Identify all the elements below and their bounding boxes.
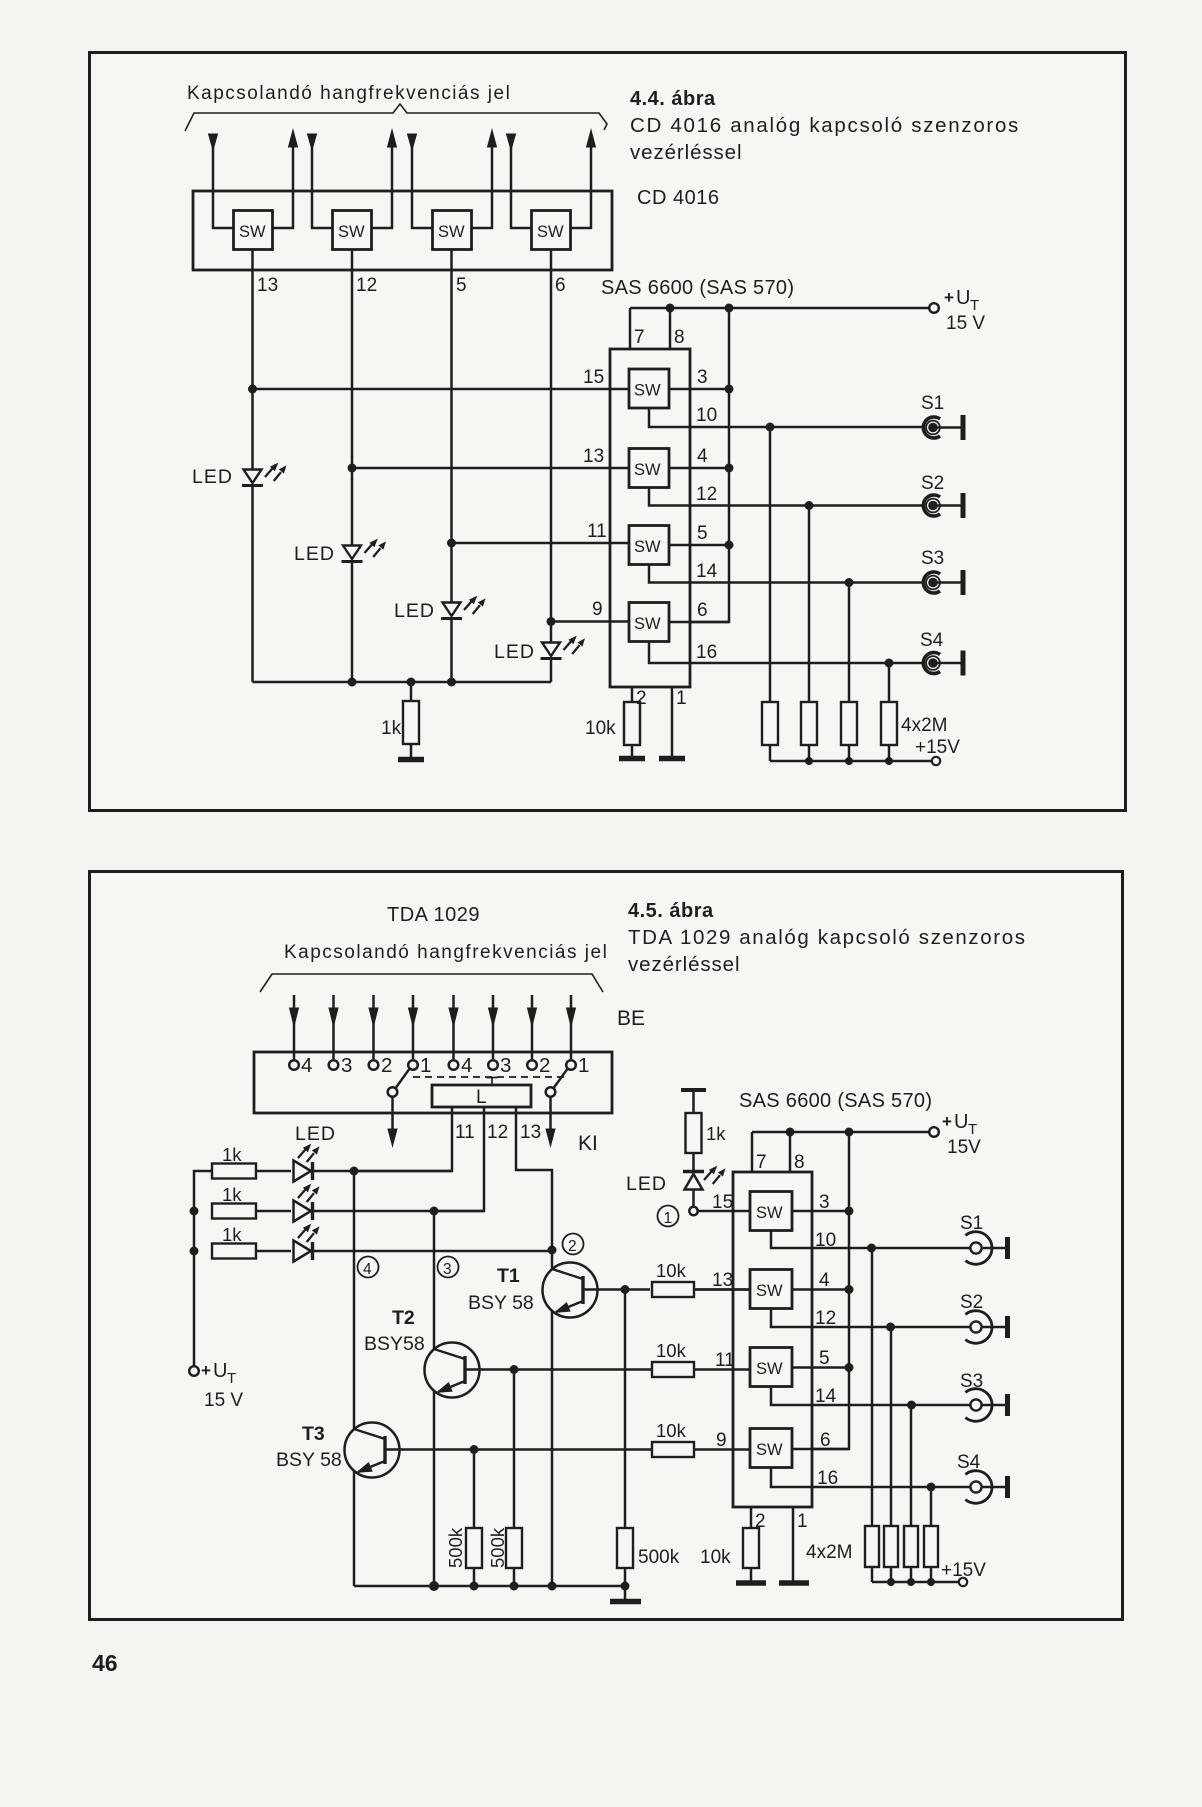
switch SW c — [433, 211, 472, 250]
resistor 500k b — [506, 1370, 522, 1587]
switch SW4 sas — [629, 603, 669, 642]
terminal +15V — [932, 757, 940, 765]
svg-text:S2: S2 — [921, 473, 944, 494]
svg-text:2: 2 — [755, 1511, 766, 1532]
switch SW1 sas — [629, 369, 669, 408]
svg-text:16: 16 — [817, 1468, 838, 1489]
svg-text:BSY 58: BSY 58 — [468, 1292, 534, 1314]
node dot pin3 fig2 — [845, 1207, 854, 1216]
LED D1 — [242, 463, 287, 682]
IC SAS6600 fig2 outline — [733, 1172, 812, 1507]
resistor 2M a — [762, 427, 778, 761]
input arrow dn1 — [209, 134, 234, 228]
svg-text:15 V: 15 V — [204, 1390, 243, 1411]
svg-text:U: U — [956, 287, 970, 309]
node dot rail pin8 — [666, 304, 675, 313]
svg-text:4x2M: 4x2M — [901, 715, 947, 736]
node label circled4 — [358, 1257, 379, 1279]
wire row pin9 — [551, 620, 629, 623]
resistor 10k c — [652, 1442, 750, 1457]
svg-text:5: 5 — [819, 1348, 830, 1369]
resistor 500k c — [617, 1290, 633, 1587]
pin 2 lead + resistor 10k — [624, 687, 640, 757]
pin 1 lead — [671, 687, 674, 757]
wire control 1 vertical — [251, 250, 254, 470]
node dot pin10 fig2 — [867, 1244, 876, 1253]
resistor 2M a fig2 — [865, 1248, 879, 1582]
sensor S3 fig2 — [965, 1389, 1007, 1422]
svg-text:14: 14 — [815, 1386, 837, 1407]
sensor S4 — [923, 651, 963, 676]
resistor 1k — [403, 682, 419, 758]
svg-text:4: 4 — [461, 1054, 472, 1077]
svg-text:9: 9 — [716, 1430, 727, 1451]
latch L box — [432, 1077, 531, 1108]
switch SW4 fig2 — [750, 1429, 792, 1468]
svg-text:SAS 6600 (SAS 570): SAS 6600 (SAS 570) — [601, 277, 794, 299]
svg-text:S1: S1 — [960, 1213, 983, 1234]
node dot pin14 fig2 — [907, 1401, 916, 1410]
node label circled2 — [563, 1234, 584, 1256]
svg-text:12: 12 — [696, 484, 717, 505]
output arrow up3 — [472, 130, 497, 228]
svg-text:SW: SW — [634, 615, 661, 633]
ground at rail — [610, 1586, 641, 1602]
node dot pin12 fig2 — [886, 1323, 895, 1332]
wire control 4 vertical — [550, 250, 553, 643]
svg-text:10k: 10k — [700, 1547, 731, 1568]
svg-text:+: + — [201, 1361, 211, 1380]
svg-text:12: 12 — [356, 275, 377, 296]
brace over inputs — [185, 104, 607, 131]
svg-text:11: 11 — [587, 521, 607, 542]
svg-text:S1: S1 — [921, 393, 944, 414]
svg-text:15 V: 15 V — [946, 313, 985, 334]
node dot T3 base — [470, 1445, 479, 1454]
wire control 2 vertical — [351, 250, 354, 546]
node dot led3 out — [548, 1246, 557, 1255]
svg-text:4.5. ábra: 4.5. ábra — [628, 900, 714, 922]
input arrow 7 — [528, 995, 537, 1059]
svg-text:+: + — [942, 1112, 952, 1131]
label +UT fig2 — [942, 1111, 977, 1138]
input arrow 2 — [329, 995, 338, 1059]
svg-text:4: 4 — [301, 1054, 312, 1077]
LED E3 — [294, 1224, 553, 1262]
switch SW3 sas — [629, 526, 669, 565]
pin2 lead + resistor 10k d — [743, 1507, 759, 1581]
switch SW a — [234, 211, 273, 250]
svg-text:1k: 1k — [381, 718, 402, 739]
ground under 10k — [619, 756, 645, 762]
pin1 lead fig2 — [792, 1507, 795, 1581]
wire L pin11 — [354, 1107, 452, 1171]
svg-text:TDA 1029 analóg kapcsoló szenz: TDA 1029 analóg kapcsoló szenzoros — [628, 926, 1027, 949]
svg-text:SW: SW — [756, 1204, 783, 1222]
pin 7 lead — [629, 308, 632, 349]
svg-text:LED: LED — [295, 1123, 336, 1145]
terminal circle 3a — [329, 1060, 339, 1070]
resistor 1k top — [681, 1090, 706, 1171]
wire pin14 — [649, 565, 923, 583]
svg-text:SW: SW — [634, 538, 661, 556]
wire pin3 fig2 — [792, 1210, 849, 1213]
terminal circle 4a — [289, 1060, 299, 1070]
svg-text:3: 3 — [443, 1261, 452, 1278]
svg-text:LED: LED — [294, 543, 335, 565]
svg-text:14: 14 — [696, 561, 718, 582]
svg-text:1: 1 — [420, 1054, 431, 1077]
terminal +15V fig2 — [959, 1578, 967, 1586]
switch SW d — [532, 211, 571, 250]
terminal circle 1b — [566, 1060, 576, 1070]
LED E1 — [294, 1144, 453, 1182]
svg-text:7: 7 — [634, 327, 645, 348]
svg-text:SW: SW — [756, 1282, 783, 1300]
terminal circle 2a — [369, 1060, 379, 1070]
pin8 lead fig2 — [789, 1132, 792, 1172]
terminal circle 4b — [449, 1060, 459, 1070]
svg-text:12: 12 — [815, 1308, 836, 1329]
svg-text:vezérléssel: vezérléssel — [630, 141, 742, 164]
ground pin2 — [736, 1580, 766, 1586]
wire row pin11 — [452, 542, 630, 545]
svg-text:15: 15 — [712, 1192, 733, 1213]
label +UT — [944, 287, 979, 314]
svg-text:1: 1 — [578, 1054, 589, 1077]
svg-text:Kapcsolandó hangfrekvenciás je: Kapcsolandó hangfrekvenciás jel — [284, 942, 608, 963]
svg-text:8: 8 — [674, 327, 685, 348]
wire +15V rail — [770, 760, 931, 763]
wire +UT rail — [630, 307, 929, 310]
node dot 15v c fig2 — [907, 1578, 915, 1586]
node dot pin5 — [725, 541, 734, 550]
svg-text:1: 1 — [797, 1511, 808, 1532]
svg-text:BE: BE — [617, 1007, 645, 1030]
svg-text:+15V: +15V — [941, 1560, 986, 1581]
dashed link line — [413, 1076, 569, 1078]
svg-text:BSY58: BSY58 — [364, 1333, 425, 1355]
LED D3 — [441, 596, 486, 682]
node dot rail T2 — [429, 1581, 439, 1591]
node dot pin14 r2m — [845, 578, 854, 587]
resistor 1k row3 — [212, 1244, 291, 1259]
svg-text:500k: 500k — [445, 1527, 466, 1568]
node dot pin16 r2m — [885, 659, 894, 668]
wire pin14 fig2 — [771, 1387, 971, 1406]
svg-text:5: 5 — [456, 275, 467, 296]
svg-text:BSY 58: BSY 58 — [276, 1449, 342, 1471]
svg-text:8: 8 — [794, 1152, 805, 1173]
wire emitter rail — [354, 1585, 625, 1588]
svg-text:SAS 6600 (SAS 570): SAS 6600 (SAS 570) — [739, 1090, 932, 1112]
svg-text:3: 3 — [500, 1054, 511, 1077]
node dot rail8 fig2 — [786, 1128, 795, 1137]
svg-text:1k: 1k — [222, 1224, 242, 1245]
node dot pin4 — [725, 464, 734, 473]
caption 4.4 abra — [630, 88, 1020, 164]
node dot rail2 — [348, 678, 357, 687]
ground pin1 fig2 — [779, 1580, 809, 1586]
svg-text:2: 2 — [568, 1238, 577, 1255]
svg-text:SW: SW — [634, 461, 661, 479]
wire bottom cathode rail — [253, 681, 552, 684]
node dot 15v d — [885, 757, 893, 765]
resistor 10k b — [652, 1362, 750, 1377]
node dot pin4 fig2 — [845, 1285, 854, 1294]
node dot pin12 r2m — [805, 501, 814, 510]
svg-text:9: 9 — [592, 599, 603, 620]
wire pin6 fig2 — [792, 1448, 849, 1451]
terminal circle pin15 — [689, 1207, 697, 1215]
ground under pin1 — [659, 756, 685, 762]
resistor 10k a — [652, 1282, 750, 1297]
wire pin10 fig2 — [771, 1231, 971, 1249]
input arrow 3 — [369, 995, 378, 1059]
svg-text:S2: S2 — [960, 1292, 983, 1313]
switch SW2 fig2 — [750, 1270, 792, 1309]
IC TDA1029 box — [254, 1052, 612, 1113]
svg-text:U: U — [213, 1360, 227, 1382]
node dot 15v b fig2 — [887, 1578, 895, 1586]
svg-text:1k: 1k — [222, 1184, 242, 1205]
wire +UT rail fig2 — [752, 1131, 929, 1134]
svg-text:+: + — [944, 288, 954, 307]
svg-text:SW: SW — [756, 1441, 783, 1459]
terminal +UT fig2 — [929, 1127, 939, 1137]
node dot rail bus — [725, 304, 734, 313]
resistor 500k a — [466, 1450, 482, 1587]
figure 4.4 frame — [90, 53, 1126, 811]
node dot 15v c — [845, 757, 853, 765]
label +UT left — [201, 1360, 236, 1387]
svg-text:S3: S3 — [960, 1371, 983, 1392]
svg-text:Kapcsolandó hangfrekvenciás je: Kapcsolandó hangfrekvenciás jel — [187, 83, 511, 104]
wire pin13 fig2 — [694, 1288, 750, 1291]
node dot r15 — [248, 385, 257, 394]
output arrow up1 — [273, 130, 298, 228]
sensor S2 fig2 — [965, 1311, 1007, 1344]
svg-text:SW: SW — [239, 223, 266, 241]
input arrow 4 — [409, 995, 418, 1059]
wire pin4 fig2 — [792, 1288, 849, 1291]
node dot r9 — [547, 617, 556, 626]
node dot pin3 — [725, 385, 734, 394]
input arrow dn2 — [308, 134, 333, 228]
svg-text:4: 4 — [363, 1261, 372, 1278]
IC CD4016 box — [193, 191, 612, 270]
svg-text:500k: 500k — [638, 1547, 680, 1568]
transistor T1 — [543, 1250, 651, 1586]
svg-text:13: 13 — [712, 1270, 733, 1291]
sensor S3 — [923, 570, 963, 595]
ground under 1k — [398, 757, 424, 763]
switch SW b — [333, 211, 372, 250]
node dot rail3 — [447, 678, 456, 687]
svg-text:KI: KI — [578, 1132, 598, 1155]
wire pin16 — [649, 642, 923, 664]
wire pin6 — [669, 621, 729, 624]
svg-text:4: 4 — [697, 446, 708, 467]
svg-text:10k: 10k — [656, 1420, 687, 1441]
transistor T2 — [425, 1211, 653, 1586]
node dot r11 — [447, 539, 456, 548]
svg-text:11: 11 — [715, 1350, 735, 1371]
resistor 2M d — [881, 663, 897, 761]
wire +15V rail fig2 — [872, 1581, 959, 1584]
svg-text:SW: SW — [634, 382, 661, 400]
svg-text:T1: T1 — [497, 1265, 520, 1287]
svg-text:vezérléssel: vezérléssel — [628, 953, 740, 976]
output arrow up2 — [372, 130, 397, 228]
node label circled1 — [658, 1206, 679, 1228]
svg-text:LED: LED — [626, 1173, 667, 1195]
svg-text:1: 1 — [664, 1210, 673, 1227]
node dot pin5 fig2 — [845, 1363, 854, 1372]
svg-text:2: 2 — [636, 688, 647, 709]
node dot r13 — [348, 464, 357, 473]
svg-text:T: T — [227, 1370, 236, 1387]
svg-text:46: 46 — [92, 1650, 118, 1676]
svg-text:TDA 1029: TDA 1029 — [387, 904, 480, 926]
node dot rail 500kb — [510, 1582, 519, 1591]
svg-text:7: 7 — [756, 1152, 767, 1173]
node dot led2 out — [430, 1207, 439, 1216]
output arrow up4 — [571, 130, 596, 228]
svg-text:+15V: +15V — [915, 737, 960, 758]
svg-text:CD 4016: CD 4016 — [637, 187, 719, 209]
svg-text:3: 3 — [341, 1054, 352, 1077]
svg-text:1k: 1k — [706, 1123, 726, 1144]
terminal circle 2b — [527, 1060, 537, 1070]
wire pin15 fig2 — [698, 1210, 750, 1213]
svg-text:2: 2 — [381, 1054, 392, 1077]
switch arm KI — [546, 1068, 568, 1146]
input arrow dn3 — [408, 134, 433, 228]
svg-text:15V: 15V — [947, 1137, 981, 1158]
svg-text:13: 13 — [583, 446, 604, 467]
node dot rail gnd — [621, 1582, 630, 1591]
brace 2 over inputs — [260, 974, 603, 992]
pin 8 lead — [669, 308, 672, 349]
caption 4.5 abra — [628, 900, 1027, 976]
switch SW1 fig2 — [750, 1192, 792, 1231]
node dot supply2 — [190, 1207, 199, 1216]
wire row pin15 — [253, 388, 630, 391]
resistor 2M d fig2 — [924, 1487, 938, 1582]
svg-text:13: 13 — [520, 1122, 541, 1143]
svg-text:4.4. ábra: 4.4. ábra — [630, 88, 716, 110]
sensor S2 — [923, 493, 963, 518]
resistor 2M b — [801, 506, 817, 762]
svg-text:T: T — [968, 1121, 977, 1138]
switch SW3 fig2 — [750, 1348, 792, 1387]
node dot rail 500ka — [470, 1582, 479, 1591]
node dot pin10 r2m — [766, 423, 775, 432]
svg-text:S3: S3 — [921, 548, 944, 569]
input arrow dn4 — [507, 134, 532, 228]
svg-text:10k: 10k — [656, 1260, 687, 1281]
svg-text:SW: SW — [338, 223, 365, 241]
svg-text:6: 6 — [697, 600, 708, 621]
supply vertical left — [194, 1171, 212, 1366]
terminal circle 3b — [488, 1060, 498, 1070]
resistor 1k row1 — [212, 1164, 291, 1179]
svg-text:10k: 10k — [656, 1340, 687, 1361]
svg-text:S4: S4 — [920, 630, 944, 651]
svg-text:6: 6 — [820, 1430, 831, 1451]
svg-text:12: 12 — [487, 1122, 508, 1143]
LED D2 — [342, 539, 387, 682]
svg-text:SW: SW — [438, 223, 465, 241]
wire pin5 fig2 — [792, 1366, 849, 1369]
node dot rail bus fig2 — [845, 1128, 854, 1137]
svg-text:S4: S4 — [957, 1452, 981, 1473]
svg-text:10: 10 — [696, 405, 717, 426]
svg-text:SW: SW — [756, 1360, 783, 1378]
svg-text:U: U — [954, 1111, 968, 1133]
node label circled3 — [438, 1257, 459, 1279]
svg-text:T3: T3 — [302, 1423, 325, 1445]
node dot pin16 fig2 — [927, 1483, 936, 1492]
svg-text:T2: T2 — [392, 1307, 415, 1329]
wire pin12 fig2 — [771, 1309, 971, 1328]
input arrow 1 — [290, 995, 299, 1059]
switch SW2 sas — [629, 449, 669, 488]
input arrow 6 — [489, 995, 498, 1059]
node dot 15v b — [805, 757, 813, 765]
svg-text:11: 11 — [455, 1122, 475, 1143]
svg-text:SW: SW — [537, 223, 564, 241]
figure 4.5 frame — [90, 872, 1123, 1620]
node dot supply3 — [190, 1247, 199, 1256]
transistor T3 — [345, 1171, 653, 1586]
sensor S1 fig2 — [965, 1232, 1007, 1265]
resistor 2M c fig2 — [904, 1405, 918, 1582]
svg-text:3: 3 — [819, 1192, 830, 1213]
svg-text:L: L — [476, 1087, 487, 1108]
wire output bus fig2 — [812, 1132, 849, 1449]
sensor S1 — [923, 415, 963, 440]
svg-text:1k: 1k — [222, 1144, 242, 1165]
wire L pin12 — [434, 1107, 484, 1211]
svg-text:LED: LED — [494, 641, 535, 663]
input arrow 5 — [449, 995, 458, 1059]
svg-text:6: 6 — [555, 275, 566, 296]
svg-text:5: 5 — [697, 523, 708, 544]
wire row pin13 — [352, 467, 629, 470]
svg-text:10: 10 — [815, 1230, 836, 1251]
node dot T1 base — [621, 1285, 630, 1294]
wire pin16 fig2 — [771, 1468, 971, 1488]
wire pin10 — [649, 408, 923, 427]
svg-text:16: 16 — [696, 642, 717, 663]
wire output bus — [690, 308, 729, 622]
wire L pin13 — [516, 1107, 552, 1250]
node dot 15v d fig2 — [927, 1578, 935, 1586]
svg-text:T: T — [970, 297, 979, 314]
input arrow 8 — [567, 995, 576, 1059]
sensor S4 fig2 — [965, 1471, 1007, 1504]
pin7 lead fig2 — [751, 1132, 754, 1172]
wire pin5 — [669, 544, 729, 547]
terminal +UT left — [189, 1366, 199, 1376]
node dot led1 out — [350, 1167, 359, 1176]
svg-text:LED: LED — [192, 466, 233, 488]
wire pin3 — [669, 388, 729, 391]
svg-text:CD 4016 analóg kapcsoló szenzo: CD 4016 analóg kapcsoló szenzoros — [630, 114, 1020, 137]
switch arm BE — [388, 1068, 410, 1146]
